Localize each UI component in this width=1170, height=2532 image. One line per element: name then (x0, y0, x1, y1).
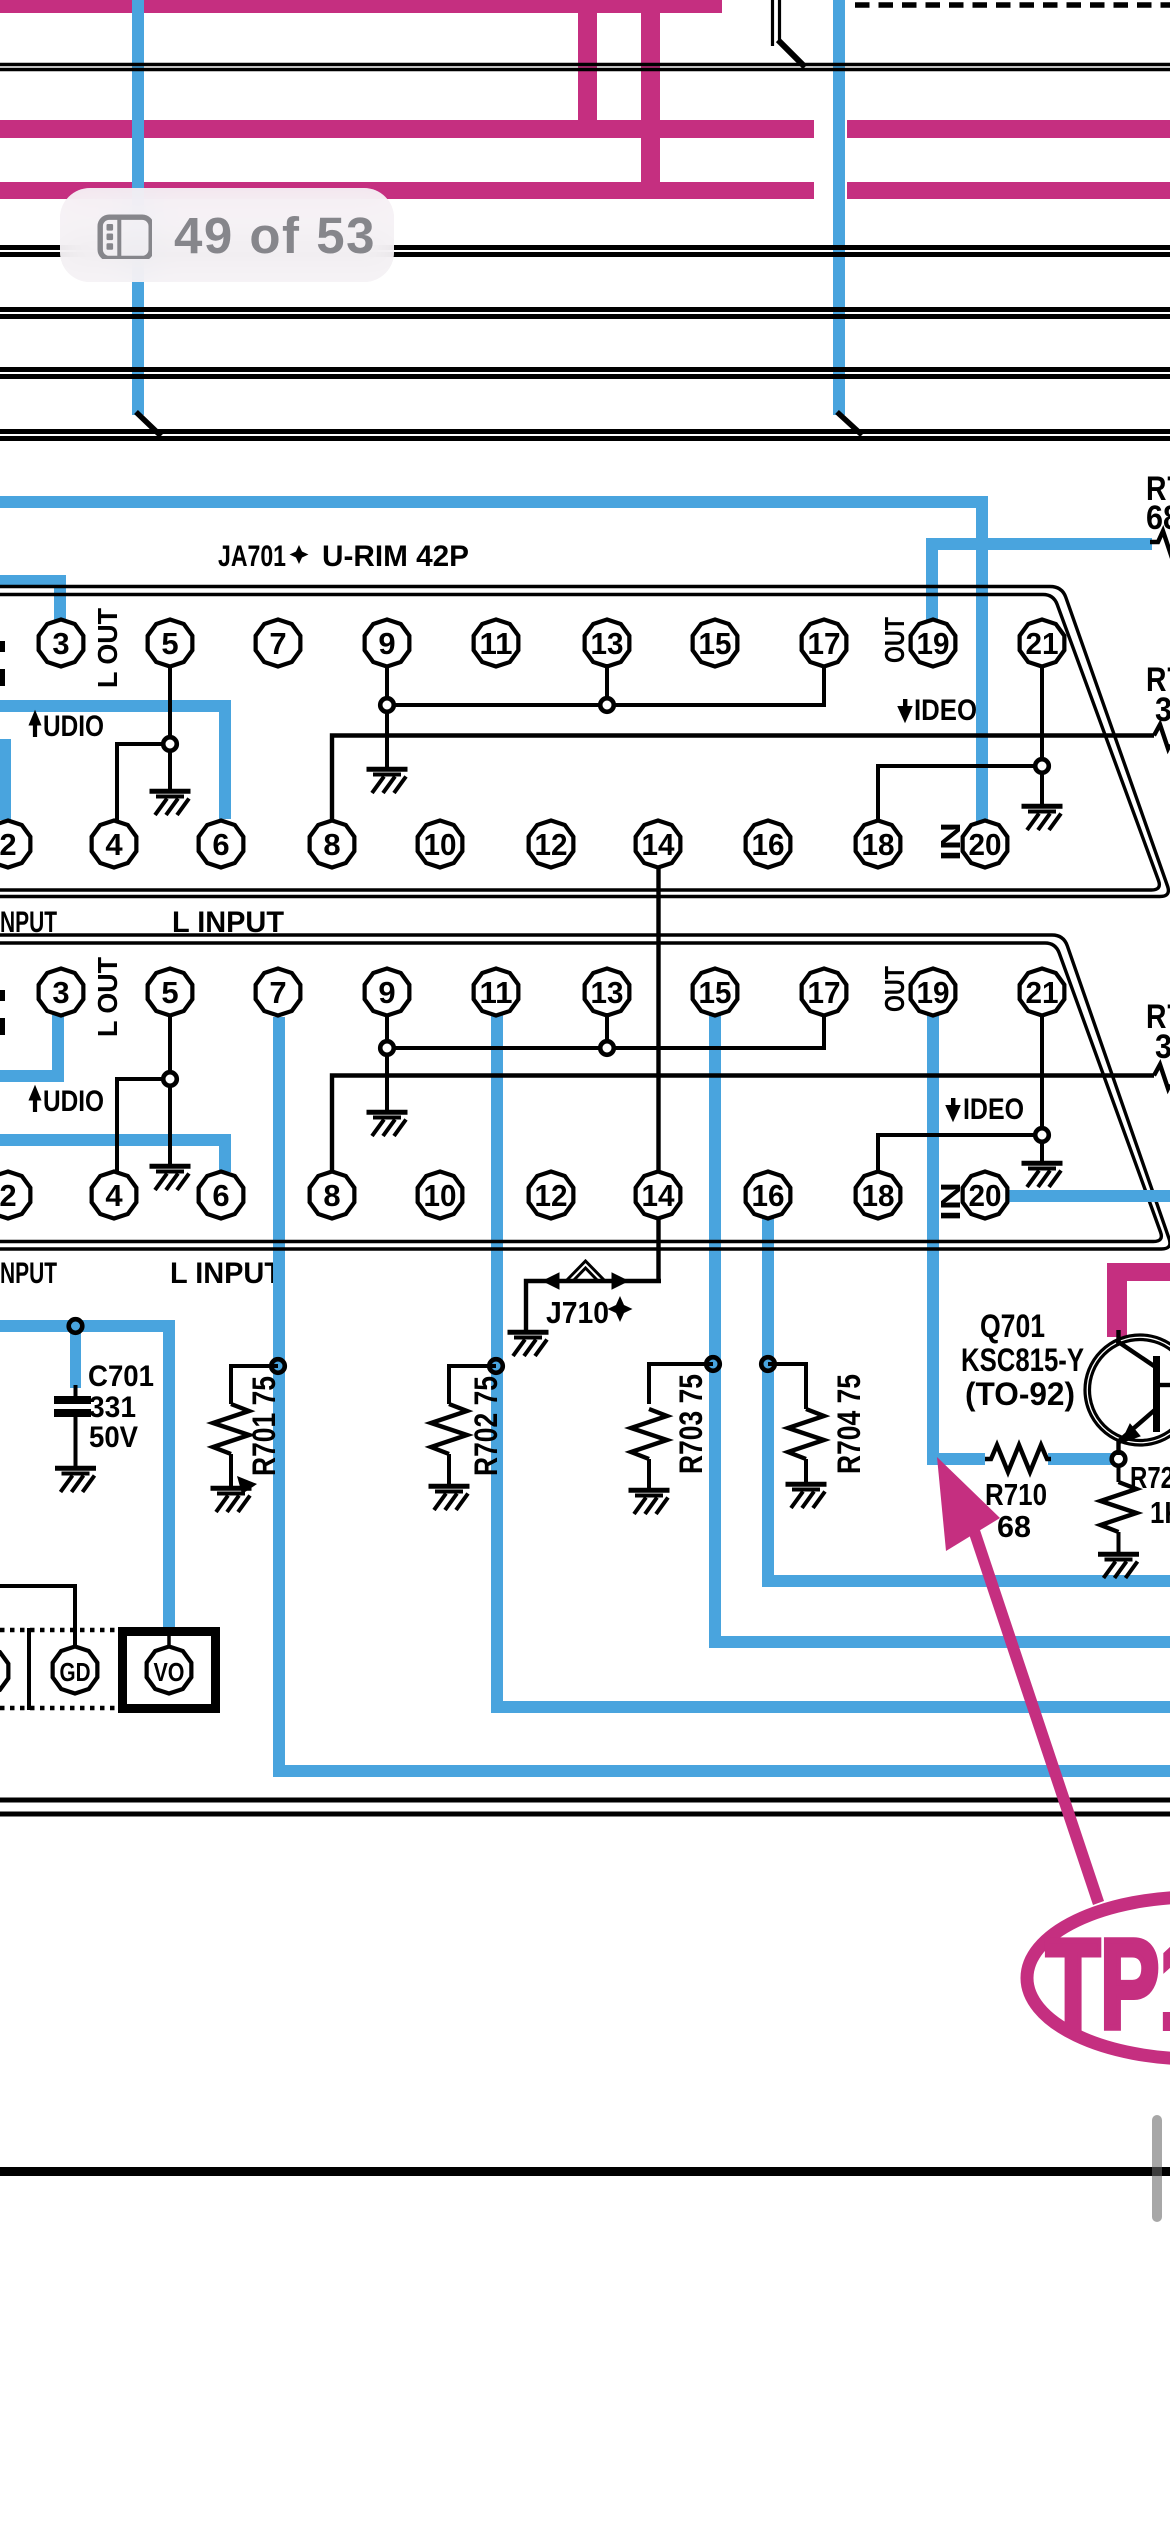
svg-text:5: 5 (161, 975, 178, 1010)
blue wire pin 11 down-right (491, 1015, 503, 1713)
svg-text:14: 14 (642, 827, 676, 862)
wire pin8 horizontal to resistor right (332, 736, 1154, 823)
blue wire pin 20 to right edge (1009, 1190, 1170, 1202)
resistor lead-in at right edge (R7xx 3xx) (1154, 725, 1170, 749)
label VIDEO with direction arrow (903, 699, 907, 712)
svg-text:9: 9 (378, 975, 395, 1010)
connector pin 16 (746, 1172, 791, 1219)
svg-text:7: 7 (269, 626, 286, 661)
wire junction to pin 18 (conn2) (878, 1135, 1042, 1170)
svg-text:17: 17 (808, 626, 841, 661)
jumper J710 link with arrows (526, 1281, 661, 1330)
label R OUT fragment at left edge (0, 641, 5, 652)
terminal divider (27, 1628, 31, 1710)
blue AUDIO wire to pin 6 (0, 700, 231, 712)
vertical pink bus line 1 (578, 0, 597, 138)
svg-text:11: 11 (480, 975, 513, 1010)
resistor R703 75 (649, 1364, 713, 1404)
connector pin 13 (585, 620, 630, 667)
pink bus band C (0, 182, 814, 199)
terminal strip: wire to GD (0, 1586, 75, 1645)
svg-text:4: 4 (105, 827, 123, 862)
blue highlighted wire V1 (left vertical) (132, 0, 144, 415)
label R OUT fragment at left edge (conn2) (0, 990, 5, 1001)
svg-text:19: 19 (917, 975, 950, 1010)
wire pin13 stem (conn2) (605, 1013, 609, 1048)
connector pin 19 (911, 620, 956, 667)
connector pin 17 (802, 620, 847, 667)
terminal (cut) at left edge (0, 1648, 8, 1695)
pink bus band A (top) (0, 0, 722, 13)
connector pin 4 (92, 821, 137, 868)
vertical pink bus line 2 (641, 0, 660, 199)
junction conn2 pin21 (1035, 1128, 1049, 1142)
pink callout arrow to R710 node (937, 1457, 1000, 1551)
label AUDIO with direction arrow (29, 711, 41, 725)
svg-text:JA701: JA701 (218, 540, 286, 573)
junction pin5 net (163, 737, 177, 751)
svg-text:(TO-92): (TO-92) (965, 1376, 1075, 1412)
connector pin 20 (963, 821, 1008, 868)
svg-text:18: 18 (862, 827, 895, 862)
svg-text:16: 16 (752, 1178, 785, 1213)
transistor Q701 KSC815-Y (1085, 1335, 1170, 1445)
connector pin 21 (1020, 620, 1065, 667)
terminal VD (147, 1647, 192, 1694)
label VIDEO with arrow (conn2) (951, 1098, 955, 1111)
svg-text:18: 18 (862, 1178, 895, 1213)
blue wire H1 to pin20 IN (video in) (0, 496, 988, 508)
junction R704 (761, 1357, 775, 1371)
ground (R703) (629, 1490, 670, 1514)
blue wire V4 down to pin 19 (926, 538, 938, 620)
wire pin9 junction to ground (conn2) (385, 1048, 389, 1112)
connector pin 5 (148, 969, 193, 1016)
connector pin 17 (802, 969, 847, 1016)
terminal GD (53, 1647, 98, 1694)
svg-text:14: 14 (642, 1178, 676, 1213)
connector pin 18 (856, 821, 901, 868)
svg-text:GD: GD (60, 1657, 91, 1687)
connector pin 5 (148, 620, 193, 667)
wire pin5 to junction (168, 666, 172, 744)
wire pin9 to junction (conn2) (385, 1015, 389, 1048)
svg-text:20: 20 (969, 1178, 1002, 1213)
connector pin 9 (365, 969, 410, 1016)
svg-text:12: 12 (535, 1178, 568, 1213)
svg-text:30: 30 (1155, 1028, 1170, 1066)
svg-text:331: 331 (89, 1391, 136, 1424)
svg-text:7: 7 (269, 975, 286, 1010)
connector pin 16 (746, 821, 791, 868)
svg-text:OUT: OUT (879, 966, 910, 1012)
ground (C701) (55, 1468, 96, 1492)
svg-text:8: 8 (323, 827, 340, 862)
ground (J710) (508, 1332, 549, 1356)
svg-text:3: 3 (52, 975, 69, 1010)
junction R703 (706, 1357, 720, 1371)
wire junction to pin 4 (117, 744, 170, 821)
ground (R704) (786, 1484, 827, 1508)
resistor R702 75 (449, 1366, 496, 1404)
dashed net segment (top right) (855, 2, 1170, 8)
junction conn2 pin5 (163, 1072, 177, 1086)
blue wire pin 7 down-right (273, 1017, 285, 1777)
svg-text:R702 75: R702 75 (468, 1376, 504, 1476)
ground (R701) (211, 1488, 252, 1512)
svg-text:R704 75: R704 75 (831, 1374, 867, 1474)
blue AUDIO wire to pin 6 (conn2) (0, 1134, 231, 1146)
connector pin 11 (474, 969, 519, 1016)
page indicator pill 49 of 53 (60, 188, 394, 282)
blue wire V3 down to pin 20 (976, 496, 988, 827)
blue wire R710 to Q701 emitter (1048, 1453, 1112, 1465)
svg-text:IDEO: IDEO (963, 1093, 1024, 1126)
label AUDIO with arrow (conn2) (29, 1086, 41, 1100)
resistor R710 68 (zigzag) (985, 1445, 1051, 1472)
blue wire junction to VD terminal (0, 1320, 175, 1332)
capacitor C701 (74, 1385, 78, 1397)
svg-text:IN: IN (935, 1182, 966, 1221)
resistor R720 1K (1117, 1465, 1121, 1482)
connector pin 20 (963, 1172, 1008, 1219)
junction conn2 pin13 (600, 1041, 614, 1055)
wire pin8 horizontal (conn2) (332, 1076, 1154, 1173)
svg-text:50V: 50V (89, 1421, 138, 1454)
pink bus band B (0, 120, 814, 138)
svg-text:6: 6 (212, 827, 229, 862)
svg-text:20: 20 (969, 827, 1002, 862)
connector pin 7 (256, 969, 301, 1016)
svg-text:KSC815-Y: KSC815-Y (961, 1342, 1084, 1378)
connector pin 3 (39, 969, 84, 1016)
svg-text:OUT: OUT (879, 617, 910, 663)
connector pin 9 (365, 620, 410, 667)
blue highlighted wire V2 (right vertical) (833, 0, 845, 415)
wire hook from V2 to bus (837, 412, 862, 435)
blue wire pin 19 down to R710 (927, 1014, 939, 1465)
connector pin 2 (0, 821, 30, 868)
wire bus pin9-pin13-pin17 (387, 666, 824, 705)
svg-text:4: 4 (105, 1178, 123, 1213)
svg-text:8: 8 (323, 1178, 340, 1213)
ground (conn2 pin5 net) (150, 1166, 191, 1190)
svg-text:R701 75: R701 75 (246, 1376, 282, 1476)
black bus corner (double vertical with chamfer) (771, 0, 774, 46)
resistor R704 75 (768, 1364, 806, 1409)
black bus line pair 1 (0, 63, 1170, 66)
ground (R702) (429, 1486, 470, 1510)
wire stub into VD (167, 1633, 171, 1648)
svg-text:NPUT: NPUT (0, 1257, 57, 1290)
pink highlight corner to Q701 collector (1107, 1263, 1170, 1281)
svg-text:2: 2 (0, 1178, 17, 1213)
blue wire from pin 3 (conn2) (52, 1015, 64, 1082)
wire junction to ground (168, 744, 172, 791)
connector pin 15 (693, 620, 738, 667)
svg-text:U-RIM 42P: U-RIM 42P (322, 540, 469, 573)
connector pin 10 (418, 821, 463, 868)
connector pin 3 (39, 620, 84, 667)
wire conn1 pin14 down to conn2 pin14 (656, 868, 660, 1172)
connector pin 15 (693, 969, 738, 1016)
junction pin13 (600, 698, 614, 712)
resistor lead-in at right edge (R7xx 68) (1150, 531, 1170, 555)
svg-text:R72: R72 (1130, 1460, 1170, 1495)
svg-text:IN: IN (935, 822, 966, 861)
wire pin13 stem (605, 664, 609, 705)
black bus line pair 2 (0, 245, 1170, 250)
wire pin9 junction to ground (385, 705, 389, 769)
svg-text:13: 13 (591, 975, 624, 1010)
svg-text:TP10: TP10 (1046, 1913, 1170, 2055)
svg-text:16: 16 (752, 827, 785, 862)
fusible arrow mark on R701 lead (237, 1476, 257, 1494)
page separator line (0, 2167, 1170, 2176)
blue wire stub to pin 2 (0, 739, 11, 820)
svg-text:10: 10 (424, 827, 457, 862)
ground (pin 5 net) (150, 791, 191, 815)
test point TP1 callout ellipse (1027, 1897, 1170, 2059)
blue stub to C701 (70, 1332, 81, 1388)
wire pin5 to junction (conn2) (168, 1015, 172, 1079)
connector pin 6 (199, 1172, 244, 1219)
wire pin9 to junction (385, 666, 389, 705)
connector pin 2 (0, 1172, 30, 1219)
connector pin 13 (585, 969, 630, 1016)
blue wire pin 16 down-right (762, 1217, 774, 1587)
junction Q701 emitter / R720 (1112, 1452, 1126, 1466)
junction R702 (489, 1359, 503, 1373)
svg-text:L INPUT: L INPUT (170, 1257, 282, 1290)
svg-text:68: 68 (1146, 499, 1170, 537)
svg-text:6: 6 (212, 1178, 229, 1213)
svg-text:L OUT: L OUT (92, 957, 123, 1037)
svg-text:VO: VO (154, 1657, 185, 1687)
resistor R701 75 (231, 1366, 278, 1404)
schematic sheet border (double line) (0, 1798, 1170, 1803)
wire junction to ground (conn2) (1040, 1135, 1044, 1163)
svg-text:19: 19 (917, 626, 950, 661)
svg-text:1K: 1K (1150, 1495, 1170, 1530)
wire hook from V1 to bus (136, 412, 161, 436)
scroll indicator (1152, 2115, 1162, 2222)
black bus line pair 4 (0, 367, 1170, 372)
svg-text:J710: J710 (546, 1295, 609, 1330)
svg-text:21: 21 (1026, 975, 1059, 1010)
blue wire H2 from pin19 OUT to resistor (926, 538, 1152, 550)
svg-text:12: 12 (535, 827, 568, 862)
svg-text:Q701: Q701 (980, 1308, 1045, 1344)
connector pin 19 (911, 969, 956, 1016)
ground (R720) (1098, 1554, 1139, 1578)
wire pin21 to junction (1040, 666, 1044, 766)
svg-text:30: 30 (1155, 691, 1170, 729)
connector pin 6 (199, 821, 244, 868)
svg-text:R710: R710 (985, 1477, 1047, 1512)
black bus line pair 3 (0, 307, 1170, 312)
svg-text:9: 9 (378, 626, 395, 661)
junction conn2 pin9 (380, 1041, 394, 1055)
junction pin9 (380, 698, 394, 712)
svg-text:2: 2 (0, 827, 17, 862)
svg-text:UDIO: UDIO (43, 1085, 104, 1118)
ground (conn2 pin9 net) (367, 1112, 408, 1136)
connector pin 14 (636, 1172, 681, 1219)
connector pin 18 (856, 1172, 901, 1219)
wire junction to ground (1040, 766, 1044, 806)
connector pin 4 (92, 1172, 137, 1219)
terminal VD box (118, 1627, 220, 1636)
connector pin 21 (1020, 969, 1065, 1016)
connector pin 12 (529, 1172, 574, 1219)
wire junction to ground (conn2) (168, 1079, 172, 1166)
junction R701 (271, 1359, 285, 1373)
wire junction to pin 18 (878, 766, 1042, 820)
svg-text:15: 15 (699, 626, 732, 661)
connector 2 body outline (outer) (0, 935, 1170, 1249)
junction pin21 (1035, 759, 1049, 773)
connector pin 8 (310, 821, 355, 868)
connector pin 11 (474, 620, 519, 667)
wire pin14 down to J710 (656, 1219, 660, 1281)
connector pin 8 (310, 1172, 355, 1219)
svg-text:68: 68 (997, 1509, 1031, 1544)
wire bus pin9-pin13-pin17 (conn2) (387, 1015, 824, 1048)
ground (conn2 pin21 net) (1022, 1163, 1063, 1187)
connector pin 7 (256, 620, 301, 667)
svg-text:17: 17 (808, 975, 841, 1010)
svg-text:C701: C701 (88, 1360, 154, 1393)
terminal strip dotted outline (0, 1628, 119, 1633)
svg-text:15: 15 (699, 975, 732, 1010)
svg-text:3: 3 (52, 626, 69, 661)
svg-text:R703 75: R703 75 (673, 1374, 709, 1474)
svg-text:IDEO: IDEO (914, 694, 977, 727)
connector pin 14 (636, 821, 681, 868)
connector pin 12 (529, 821, 574, 868)
wire pin21 to junction (conn2) (1040, 1015, 1044, 1135)
svg-text:13: 13 (591, 626, 624, 661)
svg-text:5: 5 (161, 626, 178, 661)
svg-text:L OUT: L OUT (92, 608, 123, 688)
blue wire pin 15 down-right (709, 1014, 721, 1648)
svg-text:21: 21 (1026, 626, 1059, 661)
connector JA701 body outline (inner) (0, 595, 1159, 891)
connector 2 body outline (inner) (0, 943, 1161, 1242)
connector JA701 body outline (outer) (0, 587, 1168, 897)
svg-text:10: 10 (424, 1178, 457, 1213)
ground (pin 21 net) (1022, 806, 1063, 830)
resistor lead-in right edge (conn2) (1154, 1065, 1170, 1089)
connector pin 10 (418, 1172, 463, 1219)
svg-text:UDIO: UDIO (43, 710, 104, 743)
junction C701/VD net (69, 1319, 83, 1333)
blue wire to pin 3 (L OUT) (0, 575, 66, 587)
svg-text:11: 11 (480, 626, 513, 661)
wire junction to pin 4 (conn2) (117, 1079, 170, 1172)
ground (pin 9 net) (367, 769, 408, 793)
black bus line pair 5 (0, 429, 1170, 434)
